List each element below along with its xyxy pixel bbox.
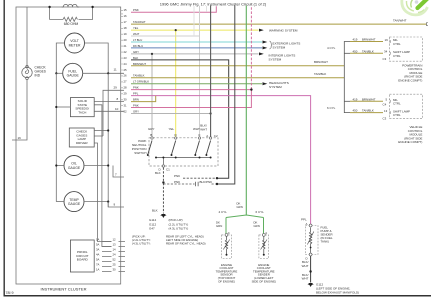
svg-text:GRY: GRY xyxy=(148,127,154,131)
svg-text:6 CYL: 6 CYL xyxy=(256,210,265,214)
oil gauge circle xyxy=(64,156,84,176)
park neutral position switch labels xyxy=(148,124,218,138)
svg-text:52: 52 xyxy=(113,258,117,262)
svg-text:450: 450 xyxy=(353,49,358,53)
ground location notes xyxy=(132,235,206,246)
wire PNK pin28 xyxy=(131,89,251,91)
svg-text:GAUGE: GAUGE xyxy=(68,202,81,206)
wire 450 TAN/BLK to PCM xyxy=(350,49,388,61)
coolant temperature sender 6cyl xyxy=(259,234,269,259)
volt meter U circle xyxy=(65,33,85,53)
svg-text:LT BLU: LT BLU xyxy=(133,38,142,42)
svg-text:24: 24 xyxy=(124,62,128,66)
svg-text:PNK: PNK xyxy=(133,104,139,108)
wire LT GRN/BLK pin27 xyxy=(131,83,262,85)
connector pin numbers and wire labels xyxy=(124,8,150,113)
prndl pin rows xyxy=(102,242,125,272)
svg-text:PNK: PNK xyxy=(133,86,139,90)
speedo/tach box xyxy=(70,98,94,117)
svg-text:4 CYL: 4 CYL xyxy=(219,210,228,214)
wire top parallel network xyxy=(50,7,93,19)
svg-text:29: 29 xyxy=(124,92,128,96)
svg-text:13: 13 xyxy=(384,109,388,113)
brace exterior lights xyxy=(270,41,273,49)
wire GRY pin22 xyxy=(131,53,259,138)
svg-text:11: 11 xyxy=(114,68,117,72)
svg-text:ENGINE COMPT): ENGINE COMPT) xyxy=(398,79,422,83)
wire PNK pin31 xyxy=(131,6,253,108)
svg-text:26: 26 xyxy=(124,74,128,78)
svg-text:450: 450 xyxy=(353,109,358,113)
svg-text:C2: C2 xyxy=(214,134,218,138)
svg-text:METER: METER xyxy=(69,43,81,47)
svg-text:GRY: GRY xyxy=(133,110,139,114)
switch blade 1 xyxy=(147,141,157,159)
bracket split to modules xyxy=(344,42,350,113)
wire fuel left xyxy=(56,72,62,74)
wire LT BLU pin20 xyxy=(131,41,262,43)
wire WHT pin19 xyxy=(131,6,207,138)
svg-text:30: 30 xyxy=(124,98,128,102)
svg-text:5A: 5A xyxy=(96,243,100,247)
arrow exterior lights 1 xyxy=(263,41,268,44)
page left border xyxy=(3,0,5,296)
fuel gauge circle xyxy=(63,63,83,83)
svg-text:B: B xyxy=(150,133,152,137)
wire speedo left stub xyxy=(56,106,70,108)
svg-text:19: 19 xyxy=(385,38,389,42)
svg-text:4 CYL: 4 CYL xyxy=(327,46,336,50)
svg-text:GAUGE: GAUGE xyxy=(68,166,81,170)
coolant temperature sensor 4cyl xyxy=(222,234,232,259)
wire pin 7 stub xyxy=(113,166,124,178)
svg-text:GAUGE: GAUGE xyxy=(67,74,80,78)
wire YEL pin18 xyxy=(131,29,259,138)
wire DK BLU pin21 xyxy=(131,47,262,49)
svg-text:CTRL: CTRL xyxy=(393,54,401,58)
wire 450 TAN/BLK to VCM xyxy=(350,109,388,121)
svg-text:PNK: PNK xyxy=(133,8,139,12)
switch blade 4 xyxy=(205,141,211,159)
svg-text:TAN/WHT: TAN/WHT xyxy=(133,20,146,24)
svg-text:17: 17 xyxy=(124,20,128,24)
svg-text:TAN/BLK: TAN/BLK xyxy=(362,109,374,113)
svg-text:SYSTEM: SYSTEM xyxy=(269,85,282,89)
wire volt meter left xyxy=(56,43,64,73)
arrow exterior lights 2 xyxy=(263,46,268,49)
svg-text:BLK: BLK xyxy=(152,209,158,213)
svg-text:YEL: YEL xyxy=(169,127,175,131)
ground G114 under switch xyxy=(149,214,188,230)
wire DK GRN split xyxy=(219,202,265,218)
svg-text:14: 14 xyxy=(113,248,117,252)
svg-text:TAN/BLK: TAN/BLK xyxy=(314,72,326,76)
switch blade 3 xyxy=(194,141,200,159)
park neutral position switch box xyxy=(149,138,218,166)
vehicle control module box xyxy=(390,94,423,119)
svg-text:6 CYL: 6 CYL xyxy=(327,106,336,110)
wire left bus down xyxy=(55,73,57,201)
wire temp right xyxy=(84,201,108,203)
wire left drop to check gages lamp xyxy=(26,7,28,67)
switch bus to bottom terminal xyxy=(162,158,164,165)
svg-text:CTRL: CTRL xyxy=(393,42,401,46)
svg-text:18: 18 xyxy=(124,26,128,30)
instrument cluster box xyxy=(16,7,121,284)
prndl circuit board box xyxy=(70,240,94,272)
svg-text:22: 22 xyxy=(124,50,128,54)
svg-text:TANK): TANK) xyxy=(321,240,329,244)
node dot left xyxy=(48,6,50,8)
watermark green logo top right xyxy=(402,0,429,15)
svg-text:30: 30 xyxy=(113,268,117,272)
wire volt meter right xyxy=(85,43,109,73)
svg-text:16: 16 xyxy=(18,136,22,140)
svg-text:12: 12 xyxy=(113,238,117,242)
svg-text:1996 GMC Jimmy Fig. 17: Instr: 1996 GMC Jimmy Fig. 17: Instrument Clust… xyxy=(160,2,267,7)
svg-text:27: 27 xyxy=(124,80,128,84)
svg-text:BRN/WHT: BRN/WHT xyxy=(362,38,376,42)
svg-text:BRN: BRN xyxy=(133,98,139,102)
wire BLK from switch D xyxy=(152,168,165,214)
svg-text:WHT: WHT xyxy=(200,128,207,132)
svg-text:BRN/WHT: BRN/WHT xyxy=(314,60,328,64)
svg-text:LT GRN/BLK: LT GRN/BLK xyxy=(133,80,149,84)
connector pin ticks at cluster edge xyxy=(121,10,123,111)
svg-text:BRN/WHT: BRN/WHT xyxy=(362,97,376,101)
svg-text:31: 31 xyxy=(124,104,128,108)
splice PNK row 1 xyxy=(174,174,218,179)
svg-text:REAR OF RIGHT CYL. HEAD): REAR OF RIGHT CYL. HEAD) xyxy=(166,241,206,245)
wire PPL pin29 to fuel pump xyxy=(131,96,311,224)
splice PNK / BLK-PNK row 2 xyxy=(163,180,218,186)
svg-text:SWITCH: SWITCH xyxy=(134,151,146,155)
ground G112 xyxy=(308,283,359,295)
svg-text:29: 29 xyxy=(114,85,118,89)
svg-text:4A: 4A xyxy=(96,253,100,257)
svg-text:YEL: YEL xyxy=(133,26,139,30)
wire oil left xyxy=(56,165,64,167)
svg-text:23: 23 xyxy=(124,56,128,60)
wire BLK/WHT vertical to switch A xyxy=(210,6,212,139)
svg-text:DK BLU: DK BLU xyxy=(133,44,143,48)
check gages lamp driver box xyxy=(69,128,94,147)
wire 419 BRN/WHT to VCM xyxy=(350,97,388,106)
svg-text:28: 28 xyxy=(124,86,128,90)
wire driver right stub 2 xyxy=(94,135,103,137)
svg-text:BLK/PNK: BLK/PNK xyxy=(200,180,213,184)
switch common bus xyxy=(156,157,211,159)
svg-text:19: 19 xyxy=(124,32,128,36)
svg-text:DRIVER: DRIVER xyxy=(76,141,88,145)
svg-text:OF ENGINE): OF ENGINE) xyxy=(218,279,235,283)
wire DK GRN 6cyl branch xyxy=(254,218,268,236)
svg-text:25: 25 xyxy=(124,68,128,72)
svg-text:GRN: GRN xyxy=(216,224,222,228)
svg-text:BLK: BLK xyxy=(133,56,138,60)
resistor 680 OHM xyxy=(63,17,78,21)
wire 419 BRN/WHT to PCM xyxy=(350,38,388,42)
svg-text:680 OHM: 680 OHM xyxy=(64,22,79,26)
coil lamp symbol on top edge xyxy=(62,4,79,7)
svg-text:INSTRUMENT CLUSTER: INSTRUMENT CLUSTER xyxy=(41,287,87,292)
svg-text:7A: 7A xyxy=(96,263,100,267)
svg-text:24: 24 xyxy=(113,253,117,257)
wire driver right stub 1 xyxy=(94,130,108,132)
lamp CHECK GAGES IND xyxy=(22,66,32,80)
wire pin 9 stub xyxy=(108,202,124,207)
svg-text:3A: 3A xyxy=(96,248,100,252)
svg-text:C4: C4 xyxy=(383,102,387,106)
wire driver bottom stub down to prndl row xyxy=(94,143,111,242)
svg-text:WARNING SYSTEM: WARNING SYSTEM xyxy=(269,28,298,32)
svg-text:GRN: GRN xyxy=(254,224,260,228)
svg-text:BLK: BLK xyxy=(155,171,161,175)
fuel pump and sender box xyxy=(305,224,318,256)
svg-text:TAN/BLK: TAN/BLK xyxy=(133,74,145,78)
wire PNK pin15 xyxy=(131,6,216,12)
svg-text:(4.3L UTILITY): (4.3L UTILITY) xyxy=(169,226,189,230)
wire pin 29 stub xyxy=(103,90,124,136)
wire right bus down xyxy=(107,73,109,207)
wire oil right xyxy=(84,165,108,167)
page bottom border xyxy=(4,295,431,297)
temp gauge circle xyxy=(64,192,84,212)
svg-text:PNK: PNK xyxy=(174,180,180,184)
wire GRY pin32 xyxy=(131,112,212,114)
svg-text:C3: C3 xyxy=(383,57,387,61)
wire TAN/WHT pin17 xyxy=(131,19,428,26)
svg-text:34: 34 xyxy=(384,50,388,54)
svg-text:15: 15 xyxy=(124,8,128,12)
svg-text:419: 419 xyxy=(353,97,358,101)
wire DK GRN vertical xyxy=(245,6,247,216)
arrow HEADLIGHTS SYSTEM xyxy=(263,82,268,85)
svg-text:CTRL: CTRL xyxy=(393,102,401,106)
svg-text:BELOW EXHAUST MANIFOLD): BELOW EXHAUST MANIFOLD) xyxy=(316,290,359,294)
powertrain control module box xyxy=(390,37,423,61)
svg-text:SIDE OF ENGINE): SIDE OF ENGINE) xyxy=(252,279,276,283)
wire BLK/PNK vertical xyxy=(217,6,235,185)
svg-text:419: 419 xyxy=(353,38,358,42)
svg-text:A: A xyxy=(206,134,208,138)
svg-text:PNK: PNK xyxy=(174,174,180,178)
arrow INTERIOR LIGHTS SYSTEM xyxy=(259,52,264,55)
svg-text:TAN/WHT: TAN/WHT xyxy=(393,19,407,23)
switch terminal bumps xyxy=(151,137,212,167)
svg-text:A: A xyxy=(265,231,267,235)
svg-text:10: 10 xyxy=(115,107,119,111)
wire BLK pin23 xyxy=(131,60,229,178)
svg-text:WHT: WHT xyxy=(302,277,309,281)
svg-text:SYSTEM: SYSTEM xyxy=(273,46,286,50)
svg-text:WHT: WHT xyxy=(133,32,140,36)
svg-text:SYSTEM: SYSTEM xyxy=(269,58,282,62)
svg-text:CTRL: CTRL xyxy=(393,113,401,117)
wire speedo mid stub down to prndl row xyxy=(94,105,111,247)
svg-text:(4.3L UTILITY:: (4.3L UTILITY: xyxy=(132,241,151,245)
svg-text:IND: IND xyxy=(35,74,41,78)
wire speedo pin 8 xyxy=(94,101,124,103)
svg-text:25: 25 xyxy=(113,263,117,267)
svg-text:WHT: WHT xyxy=(302,264,309,268)
node dot right xyxy=(91,6,93,8)
svg-text:WHT: WHT xyxy=(193,127,200,131)
svg-text:C1: C1 xyxy=(166,168,170,172)
svg-text:13: 13 xyxy=(113,243,117,247)
svg-text:5A: 5A xyxy=(96,258,100,262)
svg-text:TAN/BLK: TAN/BLK xyxy=(362,49,374,53)
svg-text:16: 16 xyxy=(124,14,128,18)
wire DK GRN 4cyl branch xyxy=(216,218,230,236)
svg-text:20: 20 xyxy=(124,38,128,42)
svg-text:BRN/WHT: BRN/WHT xyxy=(133,62,146,66)
svg-text:78I 9: 78I 9 xyxy=(6,291,14,295)
svg-text:1A: 1A xyxy=(96,238,100,242)
wire BRN pin30 xyxy=(131,96,156,102)
wire temp left xyxy=(56,201,64,203)
svg-text:32: 32 xyxy=(124,110,128,114)
svg-text:G47: G47 xyxy=(149,226,155,230)
svg-text:GRY: GRY xyxy=(133,50,139,54)
wire speedo pin 10 xyxy=(94,110,124,112)
wire fuel right to pin 11 xyxy=(83,72,124,74)
svg-text:PPL: PPL xyxy=(133,92,139,96)
svg-text:TACH: TACH xyxy=(78,110,86,114)
svg-text:21: 21 xyxy=(124,44,128,48)
arrow WARNING SYSTEM xyxy=(259,29,264,32)
switch blade 2 xyxy=(171,141,177,159)
wire BLK/WHT fuel pump to ground xyxy=(302,256,312,283)
wire TAN/BLK pin26 xyxy=(131,72,344,78)
svg-text:BOARD: BOARD xyxy=(77,258,89,262)
svg-text:1A: 1A xyxy=(96,268,100,272)
wire lamp down to pin 16 xyxy=(12,80,27,141)
svg-text:GRN: GRN xyxy=(237,205,243,209)
svg-text:C3: C3 xyxy=(383,117,387,121)
svg-text:ENGINE COMPT): ENGINE COMPT) xyxy=(398,140,422,144)
wire BRN/WHT pin24 xyxy=(131,60,344,66)
